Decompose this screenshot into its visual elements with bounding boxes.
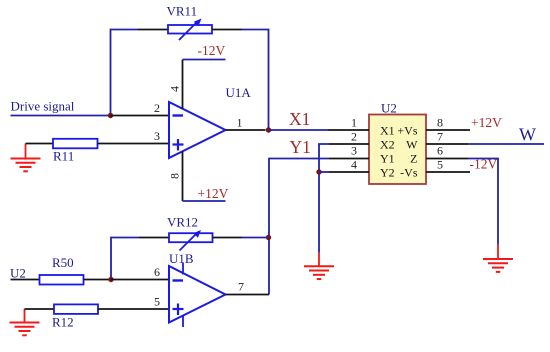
svg-text:7: 7: [238, 280, 244, 294]
pin number 1: [351, 116, 357, 130]
svg-text:3: 3: [154, 129, 160, 143]
svg-text:Y2: Y2: [380, 165, 395, 179]
svg-text:Y1: Y1: [380, 151, 395, 165]
wire W output: [468, 143, 544, 145]
wire Drive signal horizontal: [11, 115, 111, 117]
U2 inner pin name +Vs: [397, 123, 417, 137]
wire VR12 right to feedback node: [242, 237, 269, 239]
junction VR12 feedback node: [266, 235, 271, 240]
potentiometer VR12 value label: [167, 215, 198, 230]
svg-text:X1: X1: [289, 109, 310, 129]
pin number 5: [437, 158, 443, 172]
pin number 4: [351, 158, 357, 172]
net label W: [519, 125, 536, 145]
svg-text:W: W: [519, 125, 536, 145]
wire X2 pin to ground vertical: [319, 144, 329, 253]
svg-text:+12V: +12V: [198, 186, 229, 201]
wire X1 node to U2 pin 1: [269, 129, 329, 131]
wire Y1 from U1B output vertical: [269, 159, 329, 295]
svg-text:6: 6: [154, 265, 160, 279]
op-amp U1B triangle: [169, 266, 226, 323]
svg-text:-12V: -12V: [198, 43, 226, 58]
wire Z pin to right ground: [468, 159, 498, 245]
U2 inner pin name X2: [380, 137, 395, 151]
resistor R11 label: [53, 149, 74, 164]
svg-text:U1A: U1A: [226, 85, 252, 100]
U2 pin 6 (Z): [426, 158, 468, 160]
potentiometer VR11 wiper arrow: [179, 19, 202, 41]
junction Y2 tap on ground line: [316, 169, 321, 174]
wire (blue) from node B up to VR12 left: [111, 238, 139, 280]
svg-text:1: 1: [237, 116, 243, 130]
junction node B (R50 / VR12 tap): [108, 277, 113, 282]
potentiometer VR12 body: [169, 233, 213, 242]
svg-text:2: 2: [351, 130, 357, 144]
resistor R50 body: [40, 275, 84, 285]
potentiometer VR12 left pin: [139, 237, 169, 239]
U2 pin 1 (X1): [328, 129, 369, 131]
svg-text:-Vs: -Vs: [400, 165, 418, 179]
ground (right, Z pin): [483, 245, 513, 272]
svg-text:5: 5: [437, 158, 443, 172]
power label +12V (bottom): [198, 186, 229, 201]
pin number 8: [437, 116, 443, 130]
op-amp U1A designator label: [226, 85, 252, 100]
wire node A to U1A pin 2: [111, 115, 170, 117]
svg-text:3: 3: [351, 144, 357, 158]
ground (bottom-left, at R12): [10, 309, 40, 335]
net label Y1: [290, 137, 311, 157]
svg-text:8: 8: [168, 173, 182, 179]
U2 pin 5 (-Vs): [426, 171, 470, 173]
svg-text:VR12: VR12: [167, 215, 198, 230]
svg-text:6: 6: [437, 144, 443, 158]
op-amp U1B power stub bottom: [182, 316, 184, 328]
svg-text:R50: R50: [52, 255, 74, 270]
pin 8 power pin (U1A bottom): [182, 152, 184, 202]
wire U2 input to R50: [11, 279, 40, 281]
svg-text:5: 5: [154, 295, 160, 309]
wire R11 to U1A pin 3: [98, 143, 170, 145]
U2 inner pin name Z: [410, 151, 417, 165]
op-amp U1A minus symbol: [173, 114, 184, 116]
pin number 7 (U1B output): [238, 280, 244, 294]
power rail +12V stub (blue): [183, 200, 226, 202]
svg-text:X2: X2: [380, 137, 395, 151]
potentiometer VR12 right pin: [213, 237, 243, 239]
U2 inner pin name Y2: [380, 165, 395, 179]
pin number 3 (U1A non-inverting input): [154, 129, 160, 143]
pin number 8 (rotated): [168, 173, 182, 179]
U1B output pin 7 wire: [226, 294, 270, 296]
wire (blue) from VR11 right down to U1A output node: [242, 30, 269, 131]
potentiometer VR11 body: [168, 25, 212, 34]
potentiometer VR12 wiper arrow: [180, 230, 202, 251]
power label -12V (top): [198, 43, 226, 58]
U2 inner pin name X1: [380, 123, 395, 137]
svg-text:R11: R11: [53, 149, 74, 164]
U2 pin 2 (X2): [329, 143, 369, 145]
svg-text:2: 2: [154, 101, 160, 115]
wire ground to R12: [25, 308, 55, 310]
pin number 2: [351, 130, 357, 144]
potentiometer VR11 value label: [167, 4, 198, 19]
svg-text:Y1: Y1: [290, 137, 311, 157]
pin number 5 (U1B non-inverting input): [154, 295, 160, 309]
svg-text:1: 1: [351, 116, 357, 130]
svg-text:U1B: U1B: [169, 251, 194, 266]
resistor R12 label: [52, 315, 74, 330]
U2 pin 4 (Y2): [329, 171, 369, 173]
junction node A (drive signal / VR11 tap): [108, 113, 113, 118]
svg-text:U2: U2: [10, 266, 26, 281]
pin number 1 (U1A output): [237, 116, 243, 130]
U2 pin 7 (W output): [426, 143, 468, 145]
pin 4 power pin (U1A top): [182, 60, 184, 110]
multiplier U2 body: [369, 115, 426, 185]
wire R50 to node B: [84, 279, 112, 281]
svg-text:Drive signal: Drive signal: [11, 99, 75, 114]
svg-text:-12V: -12V: [470, 157, 498, 172]
svg-text:+12V: +12V: [471, 115, 502, 130]
op-amp U1B power stub top: [182, 263, 184, 275]
U1A output pin 1 wire: [226, 129, 266, 131]
svg-text:7: 7: [437, 130, 443, 144]
svg-text:W: W: [406, 137, 418, 151]
potentiometer VR11 left pin: [138, 29, 168, 31]
U2 inner pin name Y1: [380, 151, 395, 165]
svg-text:4: 4: [351, 158, 357, 172]
pin number 4 (rotated): [168, 86, 182, 92]
svg-text:+Vs: +Vs: [397, 123, 417, 137]
svg-text:8: 8: [437, 116, 443, 130]
multiplier U2 designator label: [381, 100, 397, 115]
ground (middle, X2/Y2): [304, 253, 334, 279]
power label -12V (right): [470, 157, 498, 172]
wire (blue) from node A to VR11 left: [111, 30, 139, 116]
pin number 3: [351, 144, 357, 158]
power label +12V (right): [471, 115, 502, 130]
resistor R11 body: [53, 139, 98, 149]
pin number 6 (U1B inverting input): [154, 265, 160, 279]
op-amp U1B designator label: [169, 251, 194, 266]
op-amp U1B minus symbol: [173, 279, 184, 281]
wire node B to U1B pin 6: [111, 279, 169, 281]
op-amp U1B plus symbol: [173, 304, 184, 316]
U2 inner pin name W: [406, 137, 418, 151]
svg-text:R12: R12: [52, 315, 74, 330]
svg-text:VR11: VR11: [167, 4, 198, 19]
junction node X1 (U1A output / feedback): [266, 127, 271, 132]
power rail -12V stub (blue): [183, 59, 226, 61]
pin number 7: [437, 130, 443, 144]
wire R12 to U1B pin 5: [98, 308, 169, 310]
net label X1: [289, 109, 310, 129]
net label Drive signal: [11, 99, 75, 114]
U2 pin 3 (Y1): [329, 158, 369, 160]
U2 pin 8 (+Vs): [426, 129, 470, 131]
svg-text:U2: U2: [381, 100, 397, 115]
resistor R12 body: [54, 304, 98, 314]
ground (left, at R11): [11, 144, 41, 172]
svg-text:4: 4: [168, 86, 182, 92]
svg-text:Z: Z: [410, 151, 417, 165]
svg-text:X1: X1: [380, 123, 395, 137]
net label U2 (input): [10, 266, 26, 281]
wire Y2 pin tap: [319, 171, 329, 173]
resistor R50 label: [52, 255, 74, 270]
wire ground to R11: [26, 143, 54, 145]
op-amp U1A plus symbol: [173, 139, 184, 151]
pin number 2 (U1A inverting input): [154, 101, 160, 115]
potentiometer VR11 right pin: [212, 29, 242, 31]
U2 inner pin name -Vs: [400, 165, 418, 179]
op-amp U1A triangle: [169, 102, 226, 158]
pin number 6: [437, 144, 443, 158]
